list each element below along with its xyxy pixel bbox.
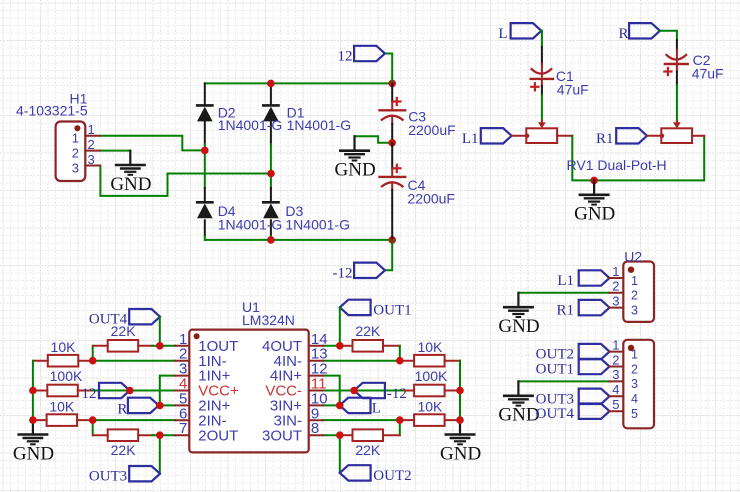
- svg-text:L: L: [372, 400, 381, 416]
- wire C3 top pin: [391, 83, 393, 102]
- svg-text:-12: -12: [387, 386, 407, 402]
- svg-text:47uF: 47uF: [557, 81, 589, 97]
- netflag 12 top: [354, 46, 385, 61]
- wire D4 cathode pin: [204, 188, 206, 202]
- wire pin4 VCC+ row: [92, 390, 175, 392]
- wire bottom rail -12: [205, 239, 392, 241]
- connector U2 pin stubs: [609, 277, 623, 279]
- wire pin14 node: [323, 345, 340, 347]
- resistor 10K bottom left: [47, 414, 78, 426]
- svg-text:2: 2: [72, 145, 79, 160]
- wire pin6 row: [93, 419, 175, 421]
- wire R flag to C2: [660, 31, 677, 40]
- wire 22K U1C right leg: [399, 420, 401, 435]
- potentiometer RV1a wiper: [541, 121, 543, 124]
- netflag L input: [511, 23, 542, 38]
- svg-text:3: 3: [72, 160, 79, 175]
- resistor 22K U1B feedback: [108, 429, 139, 441]
- resistor 10K U1A input: [48, 355, 79, 367]
- netflag OUT1: [340, 300, 371, 315]
- svg-text:GND: GND: [13, 443, 54, 464]
- wire D4 to bottom rail: [204, 236, 206, 240]
- svg-text:3OUT: 3OUT: [262, 427, 302, 444]
- capacitor C1 plus: [531, 86, 538, 88]
- svg-text:4: 4: [612, 382, 619, 397]
- connector H1 pin stubs: [85, 135, 99, 137]
- svg-text:8: 8: [311, 420, 319, 437]
- svg-text:3: 3: [631, 377, 638, 391]
- junction D1 top rail: [267, 80, 275, 88]
- capacitor C4 plates: [380, 176, 406, 178]
- wire 22K U1B feedback left leg: [92, 420, 94, 435]
- svg-text:2OUT: 2OUT: [198, 427, 238, 444]
- capacitor C4 plus: [393, 167, 400, 169]
- svg-text:2200uF: 2200uF: [408, 122, 455, 138]
- wire pin7 to OUT3: [159, 435, 161, 474]
- svg-text:100K: 100K: [415, 368, 448, 384]
- netflag OUT4 at connector: [579, 404, 610, 419]
- wire L flag to C1: [540, 30, 543, 32]
- svg-text:7: 7: [179, 420, 187, 437]
- resistor 22K U1D feedback: [353, 340, 384, 352]
- diode D4: [197, 201, 212, 204]
- wire pin8 to OUT2: [339, 435, 341, 473]
- svg-text:GND: GND: [110, 174, 151, 195]
- svg-text:22K: 22K: [111, 442, 137, 458]
- junction pin13 node: [396, 357, 404, 365]
- wire pin11 VCC- row: [323, 390, 405, 392]
- ground GND right rail: [459, 420, 461, 434]
- connector U2 pin1 mark: [628, 267, 634, 273]
- svg-text:GND: GND: [498, 316, 539, 337]
- svg-text:1N4001-G: 1N4001-G: [218, 216, 283, 232]
- netflag OUT4: [129, 309, 160, 324]
- netflag R at U1: [128, 398, 159, 413]
- wire pin1 node: [160, 345, 175, 347]
- connector U2 body: [623, 262, 654, 322]
- junction R flag node: [156, 402, 164, 410]
- junction pin1 node: [156, 342, 164, 350]
- svg-text:GND: GND: [335, 160, 376, 181]
- svg-text:10K: 10K: [417, 339, 443, 355]
- connector output pin1 mark: [628, 345, 634, 351]
- wire pin9 row: [323, 419, 400, 421]
- svg-text:2200uF: 2200uF: [408, 190, 455, 206]
- netflag L at U1: [340, 398, 371, 413]
- junction node B: [267, 170, 275, 178]
- wire 22K U1D right leg: [399, 346, 401, 361]
- wire RV1a to gnd rail: [572, 136, 704, 181]
- junction pin8 node: [336, 431, 344, 439]
- wire D3 cathode pin: [270, 188, 272, 202]
- wire C1 to RV1a wiper: [541, 79, 543, 86]
- svg-text:L1: L1: [462, 131, 479, 147]
- junction C3 C4 midpoint: [388, 139, 396, 147]
- wire H1 pin3 to bridge node B: [100, 166, 271, 196]
- wire node A to D4: [204, 150, 206, 188]
- capacitor C2 plus: [664, 70, 671, 72]
- svg-text:3: 3: [612, 367, 619, 382]
- capacitor C3 plates: [380, 109, 406, 111]
- wire pin10 row: [323, 404, 340, 406]
- connector output body: [623, 340, 654, 429]
- svg-text:GND: GND: [498, 405, 539, 426]
- wire pin8 row: [323, 434, 340, 436]
- junction L flag node: [336, 402, 344, 410]
- wire pin5 row: [160, 404, 175, 406]
- junction node A: [201, 147, 209, 155]
- svg-text:L1: L1: [557, 273, 574, 289]
- resistor 100K left: [47, 385, 78, 397]
- svg-text:R: R: [618, 26, 628, 42]
- svg-text:2: 2: [631, 362, 638, 376]
- connector output pin stubs: [609, 351, 623, 353]
- svg-text:22K: 22K: [355, 442, 381, 458]
- netflag OUT3: [129, 466, 160, 481]
- diode D3: [263, 201, 278, 204]
- netflag OUT3 at connector: [579, 389, 610, 404]
- ground GND at U2: [517, 293, 519, 307]
- junction pin14 node: [336, 342, 344, 350]
- svg-text:1N4001-G: 1N4001-G: [285, 216, 350, 232]
- svg-text:3: 3: [612, 293, 619, 308]
- op-amp U1 pin1 mark: [194, 333, 200, 339]
- wire H1 pin1 to bridge node A: [100, 136, 205, 151]
- svg-text:12: 12: [82, 386, 97, 402]
- svg-text:LM324N: LM324N: [242, 312, 295, 328]
- svg-text:1: 1: [631, 347, 638, 361]
- connector H1 body: [56, 122, 86, 182]
- ground GND at C3 C4 midpoint: [353, 136, 355, 150]
- svg-text:OUT1: OUT1: [373, 302, 411, 318]
- ground GND at H1 pin2: [129, 151, 131, 165]
- svg-text:4: 4: [631, 392, 638, 406]
- svg-text:1N4001-G: 1N4001-G: [218, 117, 283, 133]
- junction C4 bottom rail: [388, 236, 396, 244]
- junction D3 bottom rail: [267, 236, 275, 244]
- ground GND left rail: [32, 420, 34, 434]
- wire D2 to node A: [204, 144, 206, 150]
- wire C4 top pin: [391, 143, 393, 169]
- wire OUT1 to pin14: [339, 307, 341, 345]
- svg-text:R1: R1: [596, 131, 614, 147]
- svg-text:100K: 100K: [50, 368, 83, 384]
- wire D2 cathode pin: [204, 83, 206, 105]
- potentiometer RV1a pins: [512, 135, 527, 137]
- svg-text:1: 1: [612, 264, 619, 279]
- junction -12 VCC- tip: [350, 387, 358, 395]
- wire top rail +12: [205, 82, 392, 84]
- svg-text:12: 12: [338, 49, 353, 65]
- connector H1 pin1 mark: [74, 125, 80, 131]
- svg-text:OUT3: OUT3: [89, 469, 127, 485]
- junction -12 flag tip: [126, 387, 134, 395]
- wire C4 bottom pin: [391, 184, 393, 191]
- wire D1 cathode pin: [270, 83, 272, 105]
- svg-text:OUT3: OUT3: [536, 391, 574, 407]
- svg-text:U2: U2: [624, 248, 642, 264]
- svg-text:47uF: 47uF: [692, 66, 724, 82]
- svg-text:1: 1: [88, 122, 95, 137]
- netflag OUT1 at connector: [579, 359, 610, 374]
- svg-text:1: 1: [612, 337, 619, 352]
- junction pin9 node: [396, 416, 404, 424]
- junction rail 10K bottom: [29, 416, 37, 424]
- svg-text:RV1 Dual-Pot-H: RV1 Dual-Pot-H: [567, 157, 667, 173]
- wire C3 bottom pin: [391, 117, 393, 124]
- wire pin3 to R node: [160, 376, 175, 406]
- svg-text:2: 2: [631, 289, 638, 303]
- ground GND at RV1: [593, 180, 595, 194]
- netflag OUT2: [340, 465, 371, 480]
- junction pin6 node: [89, 416, 97, 424]
- wire mid node to ground: [355, 136, 393, 143]
- wire D2 anode pin: [204, 122, 206, 145]
- netflag L1 at U2: [579, 270, 610, 285]
- potentiometer RV1b pins: [647, 135, 661, 137]
- svg-text:1N4001-G: 1N4001-G: [287, 117, 352, 133]
- svg-text:OUT2: OUT2: [373, 468, 411, 484]
- svg-text:2: 2: [612, 352, 619, 367]
- wire right ground rail: [459, 361, 461, 420]
- wire pin7 row: [160, 434, 175, 436]
- wire pin12 to L node: [323, 376, 340, 406]
- junction C3 top rail: [388, 80, 396, 88]
- wire OUT4 to pin1: [159, 317, 161, 346]
- wire output connector pin3 to ground: [518, 380, 609, 382]
- junction rail 10K bottom right: [456, 416, 464, 424]
- svg-text:2: 2: [612, 279, 619, 294]
- netflag R1 at U2: [579, 300, 610, 315]
- resistor 10K top right: [414, 355, 445, 367]
- resistor 22K U1C feedback: [353, 429, 384, 441]
- wire D1 to node B: [270, 144, 272, 174]
- svg-text:2: 2: [88, 137, 95, 152]
- svg-text:5: 5: [612, 397, 619, 412]
- capacitor C3 plus: [393, 100, 400, 102]
- svg-text:GND: GND: [574, 204, 615, 225]
- svg-text:L: L: [498, 26, 507, 42]
- svg-text:5: 5: [631, 407, 638, 421]
- netflag -12 at VCC-: [354, 383, 385, 398]
- junction RV1 ground node: [590, 177, 598, 185]
- svg-text:GND: GND: [440, 443, 481, 464]
- netflag -12 at VCC+: [99, 383, 130, 398]
- wire +12 flag to rail: [385, 54, 392, 84]
- resistor 22K U1A feedback: [108, 340, 139, 352]
- svg-text:-12: -12: [333, 265, 353, 281]
- wire D3 anode pin: [270, 220, 272, 236]
- netflag L1 at RV1a: [481, 128, 512, 143]
- svg-text:1: 1: [631, 274, 638, 288]
- potentiometer RV1b wiper: [676, 121, 678, 124]
- wire node B to D3: [270, 174, 272, 189]
- op-amp U1 pin stubs: [175, 345, 189, 347]
- svg-text:R: R: [117, 401, 127, 417]
- capacitor C2 plates: [666, 54, 687, 59]
- wire C2 to RV1b wiper: [676, 64, 678, 72]
- netflag R1 at RV1b: [616, 128, 647, 143]
- capacitor C1 plates: [531, 68, 552, 73]
- svg-text:22K: 22K: [355, 323, 381, 339]
- svg-text:1: 1: [72, 131, 79, 146]
- svg-text:OUT4: OUT4: [536, 406, 575, 422]
- wire D4 anode pin: [204, 220, 206, 236]
- ground GND at output connector: [517, 381, 519, 395]
- wire bottom rail to -12 flag: [385, 240, 392, 270]
- junction rail 100K: [29, 387, 37, 395]
- wire pin13 row: [323, 360, 400, 362]
- svg-text:OUT2: OUT2: [536, 347, 574, 363]
- wire left ground rail: [32, 361, 34, 420]
- netflag -12 bottom: [354, 263, 385, 278]
- svg-text:R1: R1: [556, 303, 574, 319]
- diode D1: [263, 104, 278, 107]
- wire U2 pin2 to ground: [518, 292, 609, 294]
- svg-text:3: 3: [88, 152, 95, 167]
- svg-text:22K: 22K: [111, 323, 137, 339]
- op-amp U1 body: [189, 330, 308, 453]
- wire D1 anode pin: [270, 122, 272, 145]
- wire 22K feedback left leg: [92, 346, 94, 361]
- resistor 10K bottom right: [414, 414, 445, 426]
- wire H1 pin2 to ground: [100, 150, 131, 152]
- junction pin7 node: [156, 431, 164, 439]
- wire pin2 row: [93, 360, 175, 362]
- netflag OUT2 at connector: [579, 344, 610, 359]
- resistor 100K right: [414, 385, 445, 397]
- svg-text:10K: 10K: [51, 339, 77, 355]
- wire D3 to bottom rail: [270, 236, 272, 240]
- junction pin2 node: [89, 357, 97, 365]
- svg-text:3: 3: [631, 303, 638, 317]
- svg-text:10K: 10K: [417, 399, 443, 415]
- netflag R input: [629, 23, 660, 38]
- diode D2: [197, 104, 212, 107]
- junction rail 100K right: [456, 387, 464, 395]
- svg-text:10K: 10K: [49, 399, 75, 415]
- svg-text:OUT1: OUT1: [536, 362, 574, 378]
- svg-text:4-103321-5: 4-103321-5: [16, 102, 88, 118]
- potentiometer RV1b body: [661, 128, 692, 143]
- potentiometer RV1a body: [526, 128, 557, 143]
